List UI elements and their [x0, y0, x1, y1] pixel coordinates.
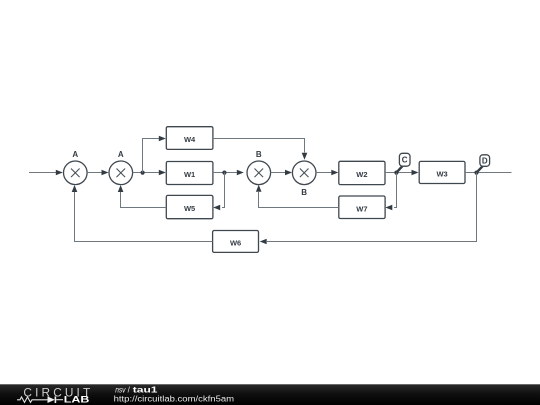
junction after W3 (node D): [474, 171, 478, 175]
svg-text:W2: W2: [356, 170, 367, 179]
multiplier X4 (node B): [292, 161, 316, 185]
block W6: [213, 231, 259, 253]
multiplier X2 (node A): [109, 161, 133, 185]
wire W3 output: [465, 172, 512, 174]
wire W2 to W3: [385, 172, 412, 174]
CircuitLab logo: diode triangle: [48, 396, 55, 403]
wire X2 to W1: [133, 172, 159, 174]
svg-text:nsv: nsv: [115, 386, 126, 395]
wire X3 to X4: [271, 172, 285, 174]
svg-text:D: D: [482, 156, 488, 165]
svg-text:W4: W4: [184, 135, 196, 144]
junction after W1: [222, 171, 226, 175]
block W4: [166, 127, 213, 150]
node flag C: [399, 153, 410, 166]
junction after X2: [141, 171, 145, 175]
wire branch down to W5 input (right side): [222, 173, 225, 208]
wire branch up to W4: [143, 139, 160, 173]
CircuitLab logo: lead to LAB: [56, 399, 63, 401]
svg-text:A: A: [118, 150, 124, 159]
junction after W2 (node C): [394, 171, 398, 175]
wire X1 to X2: [87, 172, 101, 174]
svg-text:http://circuitlab.com/ckfn5am: http://circuitlab.com/ckfn5am: [114, 394, 235, 403]
wire W1 to X3: [213, 172, 237, 174]
svg-text:C: C: [402, 156, 408, 165]
multiplier X3 (node B): [247, 161, 271, 185]
wire W7 output up into X3: [259, 192, 339, 208]
svg-text:LAB: LAB: [64, 395, 90, 405]
block W3: [419, 161, 465, 183]
svg-text:tau1: tau1: [133, 386, 159, 395]
CircuitLab logo: diode lead: [44, 399, 48, 401]
svg-text:W3: W3: [436, 170, 447, 179]
node flag C stem: [396, 166, 402, 173]
CircuitLab logo: diode bar: [54, 396, 56, 403]
wire W6 output up into X1: [75, 192, 213, 242]
svg-text:B: B: [256, 150, 262, 159]
svg-text:W6: W6: [230, 239, 241, 248]
wire branch down to W7 input (right side): [394, 173, 397, 208]
svg-text:W1: W1: [184, 170, 195, 179]
block W7: [339, 196, 385, 219]
svg-text:B: B: [301, 188, 307, 197]
wire feedback D down to W6: [267, 173, 477, 242]
wire W5 output up into X2: [121, 192, 167, 208]
svg-text:A: A: [72, 150, 78, 159]
wire W4 output to X4 top: [213, 139, 305, 153]
block W1: [166, 162, 213, 185]
svg-text:W7: W7: [356, 204, 367, 213]
wire X4 to W2: [316, 172, 332, 174]
block W5: [166, 195, 213, 218]
CircuitLab logo: resistor zigzag: [17, 397, 44, 403]
block W2: [339, 161, 385, 184]
node flag D stem: [477, 166, 483, 172]
wire input to X1: [29, 172, 56, 174]
svg-text:W5: W5: [184, 204, 195, 213]
multiplier X1 (node A): [64, 161, 88, 185]
node flag D: [480, 155, 490, 167]
